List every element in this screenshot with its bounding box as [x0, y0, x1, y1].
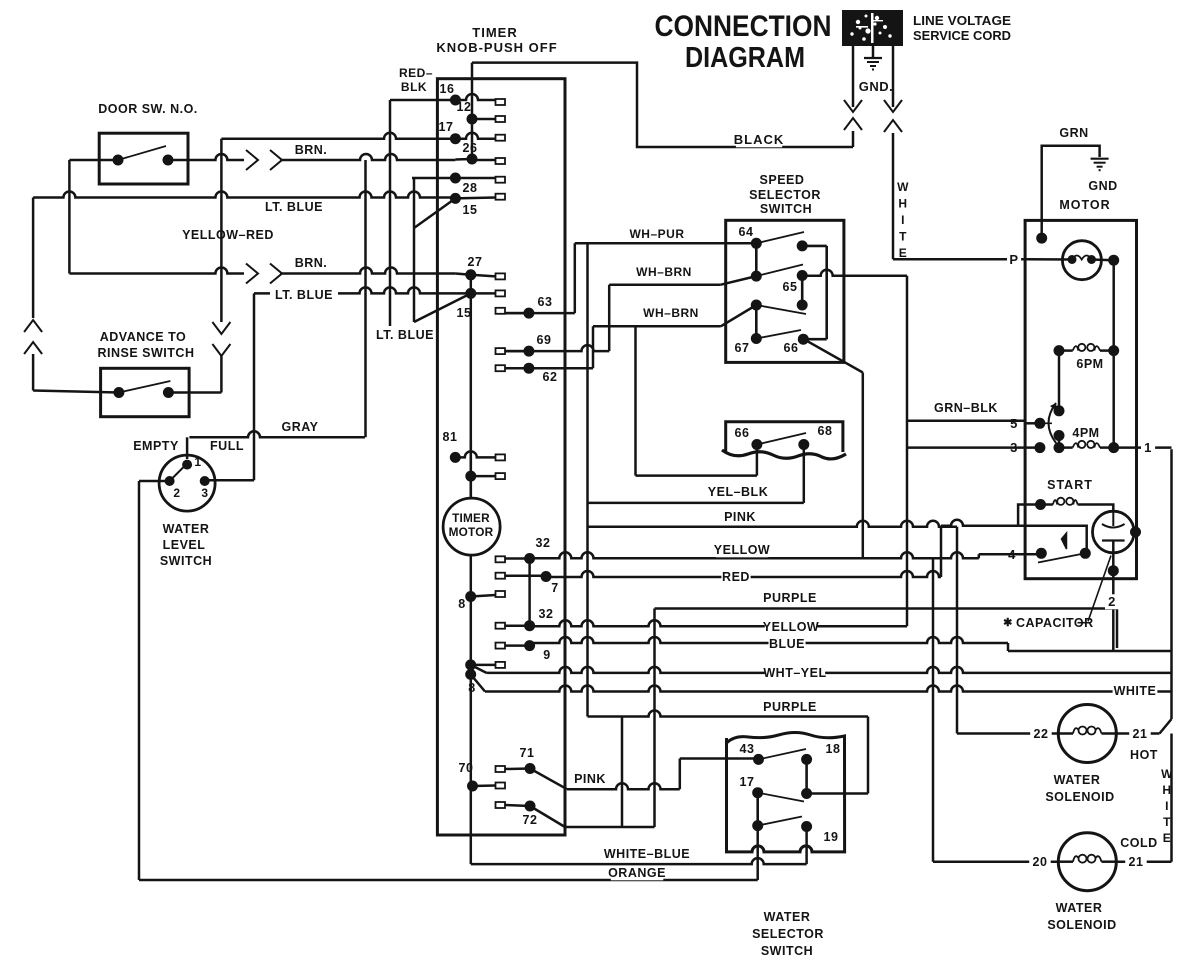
- timer terminal rail: [470, 275, 473, 499]
- terminal dot 12: [467, 114, 478, 125]
- svg-text:WATER: WATER: [1056, 901, 1103, 915]
- motor main winding circle: [1062, 241, 1101, 280]
- motor edge contact dot: [1130, 527, 1141, 538]
- label WHT-YEL: [765, 666, 825, 681]
- link 17 down: [756, 793, 759, 826]
- water level contact 3: [200, 476, 210, 486]
- main winding dot left: [1068, 255, 1077, 264]
- wire PURPLE lower: [588, 711, 869, 717]
- svg-text:H: H: [898, 197, 907, 211]
- rinse switch contact right: [163, 387, 174, 398]
- wire ORANGE: [139, 879, 758, 882]
- wire RED: [546, 571, 941, 577]
- svg-text:BRN.: BRN.: [295, 143, 328, 157]
- label YELLOW 2: [765, 620, 818, 635]
- wire door switch to left loop: [69, 159, 118, 162]
- water level blade: [170, 463, 188, 481]
- blade 66b-68: [757, 433, 806, 445]
- lug 16: [496, 99, 506, 105]
- motor grn contact dot: [1036, 233, 1047, 244]
- label P: [1007, 252, 1021, 267]
- label BRN upper: [293, 143, 330, 158]
- 4PM link vertical: [1058, 436, 1061, 448]
- svg-text:E: E: [1163, 831, 1172, 845]
- lug 15b: [496, 290, 506, 296]
- svg-text:GND: GND: [1088, 179, 1117, 193]
- wire white lead from service cord: [892, 46, 895, 107]
- wire yellow to motor 4: [978, 554, 981, 558]
- svg-text:68: 68: [818, 424, 833, 438]
- svg-text:1: 1: [1144, 440, 1152, 455]
- start winding contact: [1035, 499, 1046, 510]
- door switch box: [99, 133, 188, 184]
- svg-text:9: 9: [543, 648, 550, 662]
- svg-text:FULL: FULL: [210, 439, 244, 453]
- svg-text:65: 65: [783, 280, 798, 294]
- connector chevrons BRN lower: [246, 264, 282, 284]
- label ORANGE: [611, 866, 664, 881]
- svg-text:YEL–BLK: YEL–BLK: [708, 485, 768, 499]
- rinse selector 66-68 box: [726, 422, 843, 452]
- arrowhead black lead: [844, 100, 862, 112]
- label RED: [721, 570, 750, 585]
- blade 19: [758, 817, 802, 826]
- blade common: [756, 305, 806, 314]
- vertical yellow to cold 20: [932, 558, 935, 861]
- wire white to motor P: [893, 258, 1027, 261]
- wire 5 contact: [1026, 422, 1040, 425]
- svg-text:CONNECTION: CONNECTION: [655, 10, 832, 43]
- vertical wh-pur branch to yel-blk and pink: [586, 243, 589, 716]
- water level switch circle: [159, 455, 215, 511]
- svg-text:PINK: PINK: [724, 510, 756, 524]
- relay plate straight: [1102, 539, 1125, 541]
- water selector box: [727, 733, 845, 852]
- contact 68: [798, 439, 809, 450]
- connector chevrons BRN upper: [246, 150, 282, 170]
- terminal dot 72: [525, 801, 536, 812]
- wire 20: [933, 860, 1058, 863]
- motor right contact dot: [1108, 255, 1119, 266]
- svg-text:DOOR SW. N.O.: DOOR SW. N.O.: [98, 102, 198, 116]
- svg-text:SWITCH: SWITCH: [760, 202, 812, 216]
- 4PM winding: [1059, 441, 1114, 448]
- svg-text:ADVANCE TO: ADVANCE TO: [100, 330, 187, 344]
- svg-text:LT. BLUE: LT. BLUE: [275, 288, 333, 302]
- svg-text:LT. BLUE: LT. BLUE: [265, 200, 323, 214]
- wire 71 to pink: [530, 769, 567, 790]
- svg-text:GRN: GRN: [1059, 126, 1088, 140]
- motor right vertical: [1112, 260, 1115, 447]
- wire 32a-32b link: [528, 559, 531, 626]
- rinse switch contact left: [113, 387, 124, 398]
- svg-text:27: 27: [468, 255, 483, 269]
- svg-text:MOTOR: MOTOR: [1059, 198, 1110, 212]
- svg-text:21: 21: [1133, 727, 1148, 741]
- wire YELLOW 2: [530, 620, 907, 626]
- svg-text:WATER: WATER: [764, 910, 811, 924]
- start switch flag: [1062, 533, 1067, 549]
- start switch blade: [1038, 553, 1085, 562]
- wire 17 yellow-red horizontal: [221, 133, 455, 139]
- advance to rinse switch box: [101, 368, 190, 416]
- svg-text:63: 63: [538, 295, 553, 309]
- lug 32b: [496, 623, 506, 629]
- vertical RED-BLK: [389, 100, 392, 326]
- svg-text:HOT: HOT: [1130, 748, 1158, 762]
- contact 17: [752, 787, 763, 798]
- svg-text:71: 71: [520, 746, 535, 760]
- svg-text:1: 1: [194, 455, 201, 469]
- label PINK: [722, 510, 759, 525]
- label PURPLE upper: [764, 591, 817, 606]
- terminal dot 71: [525, 763, 536, 774]
- 6PM left vertical: [1058, 351, 1061, 411]
- label TIMER MOTOR: [449, 511, 494, 539]
- svg-text:15: 15: [463, 203, 478, 217]
- main winding loops: [1072, 256, 1092, 260]
- svg-text:TIMER: TIMER: [472, 25, 517, 40]
- label WH-BRN lower: [646, 306, 697, 320]
- wire 68 down: [803, 445, 806, 503]
- svg-text:SWITCH: SWITCH: [160, 554, 212, 568]
- lug 12: [496, 116, 506, 122]
- svg-text:COLD: COLD: [1120, 836, 1157, 850]
- cold water solenoid circle: [1058, 833, 1116, 891]
- terminal dot 32b: [524, 620, 535, 631]
- svg-text:4PM: 4PM: [1072, 426, 1099, 440]
- svg-text:PINK: PINK: [574, 772, 606, 786]
- label WH-BRN upper: [639, 265, 690, 279]
- svg-text:15: 15: [457, 306, 472, 320]
- vertical 66 output to yellow: [862, 373, 865, 559]
- wire full drop to contact 1: [186, 437, 189, 459]
- svg-text:RED: RED: [722, 570, 750, 584]
- lug 9: [496, 643, 506, 649]
- wire capacitor 2 vertical: [1112, 553, 1115, 651]
- door switch contact left: [113, 155, 124, 166]
- wire WHT-YEL: [471, 665, 487, 673]
- svg-text:RED–: RED–: [399, 66, 433, 80]
- hot solenoid winding: [1058, 727, 1116, 735]
- svg-text:2: 2: [1108, 594, 1116, 609]
- start bracket: [1018, 505, 1040, 526]
- svg-text:2: 2: [173, 486, 180, 500]
- wire 21 cold: [1116, 860, 1171, 863]
- wire black lead from service cord: [852, 46, 855, 107]
- wire 66 to link: [803, 338, 826, 341]
- wire 64 right to link: [802, 245, 827, 248]
- terminal dot 70: [467, 781, 478, 792]
- timer box: [437, 79, 565, 835]
- svg-text:TIMER: TIMER: [452, 511, 490, 525]
- lug 72: [496, 802, 506, 808]
- lug 27: [496, 273, 506, 279]
- wire 63 to wh-pur riser: [505, 312, 575, 315]
- lug 15a: [496, 194, 506, 200]
- label PINK lower: [572, 772, 609, 787]
- arrowhead white lead: [884, 100, 902, 112]
- wire 69 riser: [505, 345, 609, 351]
- start winding: [1041, 498, 1091, 505]
- label YELLOW: [716, 543, 769, 558]
- hot water solenoid circle: [1058, 705, 1116, 763]
- wire empty to left border: [139, 480, 170, 483]
- lug below 81: [496, 473, 506, 479]
- vertical motor1 wire right border: [1170, 449, 1173, 719]
- purple lower drop to 18: [867, 717, 870, 794]
- label 21 cold: [1125, 855, 1147, 870]
- svg-text:E: E: [899, 246, 908, 260]
- svg-text:WH–BRN: WH–BRN: [636, 265, 692, 279]
- lug 8a: [496, 591, 506, 597]
- label LT. BLUE upper: [260, 200, 328, 215]
- link 67 column: [755, 305, 758, 339]
- svg-text:YELLOW–RED: YELLOW–RED: [182, 228, 274, 242]
- svg-text:32: 32: [539, 607, 554, 621]
- contact 3 dot: [1034, 442, 1045, 453]
- lug 17: [496, 135, 506, 141]
- contact 19: [801, 821, 812, 832]
- svg-text:SWITCH: SWITCH: [761, 944, 813, 958]
- svg-text:32: 32: [536, 536, 551, 550]
- wire LT. BLUE lower: [254, 287, 471, 293]
- wire BLACK from timer to cord: [472, 63, 853, 147]
- svg-text:12: 12: [457, 100, 472, 114]
- start switch contact right: [1080, 548, 1091, 559]
- wire 72 exit: [530, 806, 565, 827]
- svg-text:WHT–YEL: WHT–YEL: [763, 666, 826, 680]
- terminal dot 9: [524, 640, 535, 651]
- svg-text:81: 81: [443, 430, 458, 444]
- svg-text:6PM: 6PM: [1076, 357, 1103, 371]
- wire BLUE: [530, 637, 1008, 643]
- svg-text:WATER: WATER: [1054, 773, 1101, 787]
- wire PINK lower: [567, 783, 680, 789]
- terminal dot 28: [450, 173, 461, 184]
- wire 1: [1114, 446, 1172, 449]
- relay plate curved: [1102, 524, 1125, 528]
- wire 19 down to white-blue: [805, 827, 808, 865]
- wire ground lead from service cord: [872, 46, 875, 57]
- capacitor contact dot: [1108, 565, 1119, 576]
- wire 17 column down to orange: [756, 826, 759, 880]
- svg-text:SOLENOID: SOLENOID: [1045, 790, 1114, 804]
- svg-text:18: 18: [826, 742, 841, 756]
- vertical purple2 branch: [621, 717, 624, 828]
- wire 15b diagonal: [414, 293, 471, 322]
- svg-text:LEVEL: LEVEL: [163, 538, 206, 552]
- svg-text:BRN.: BRN.: [295, 256, 328, 270]
- svg-text:70: 70: [459, 761, 474, 775]
- start switch contact left: [1036, 548, 1047, 559]
- label WHITE vertical right: [1160, 767, 1173, 845]
- lug 62: [496, 365, 506, 371]
- lug 26: [496, 158, 506, 164]
- label SPEED SELECTOR SWITCH: [749, 173, 821, 216]
- terminal dot 69: [523, 346, 534, 357]
- svg-text:62: 62: [543, 370, 558, 384]
- wire winding to right dot: [1092, 258, 1114, 261]
- terminal dot 8b upper: [465, 659, 476, 670]
- contact 66b: [751, 439, 762, 450]
- start relay circle: [1093, 511, 1135, 553]
- contact 64: [751, 238, 762, 249]
- ground symbol service cord: [864, 58, 882, 70]
- svg-text:BLUE: BLUE: [769, 637, 805, 651]
- lug 8b: [496, 662, 506, 668]
- start bracket lower: [1018, 526, 1087, 554]
- svg-text:20: 20: [1033, 855, 1048, 869]
- label WHITE right: [1113, 684, 1158, 699]
- door switch contact right: [163, 155, 174, 166]
- wire PINK: [588, 521, 958, 527]
- svg-text:MOTOR: MOTOR: [449, 525, 494, 539]
- wire PURPLE upper: [655, 607, 1118, 610]
- wire WHITE long: [471, 674, 485, 691]
- 6PM winding dots: [1054, 345, 1065, 356]
- wire 5 link: [1040, 422, 1052, 424]
- svg-text:T: T: [899, 230, 907, 244]
- centrifugal contact upper: [1054, 405, 1065, 416]
- rail above timer motor: [470, 440, 473, 499]
- label 2: [1105, 594, 1119, 609]
- svg-text:5: 5: [1010, 416, 1018, 431]
- svg-text:69: 69: [537, 333, 552, 347]
- vertical 65 output to grn-blk and yellow2: [906, 276, 909, 627]
- svg-text:7: 7: [551, 581, 558, 595]
- svg-text:SERVICE CORD: SERVICE CORD: [913, 29, 1011, 43]
- svg-text:WH–PUR: WH–PUR: [629, 227, 684, 241]
- vertical purple1 to 72 wire: [653, 609, 656, 828]
- label WATER SOLENOID cold: [1047, 901, 1116, 932]
- lug 63: [496, 308, 506, 314]
- svg-text:22: 22: [1034, 727, 1049, 741]
- lug 70: [496, 783, 506, 789]
- svg-text:P: P: [1009, 252, 1018, 267]
- svg-text:I: I: [1165, 799, 1169, 813]
- rinse switch blade: [119, 381, 170, 393]
- label LT. BLUE lower: [270, 288, 338, 303]
- timer motor circle: [443, 498, 500, 555]
- contact 67: [751, 333, 762, 344]
- svg-text:SELECTOR: SELECTOR: [749, 188, 821, 202]
- svg-text:8: 8: [468, 681, 475, 695]
- lug 28: [496, 177, 506, 183]
- svg-text:RINSE SWITCH: RINSE SWITCH: [98, 346, 195, 360]
- cold solenoid winding: [1058, 855, 1116, 863]
- svg-text:WH–BRN: WH–BRN: [643, 306, 699, 320]
- wire terminal 12 from top: [471, 63, 474, 119]
- label 20: [1029, 855, 1051, 870]
- svg-text:KNOB-PUSH OFF: KNOB-PUSH OFF: [436, 40, 557, 55]
- svg-text:26: 26: [463, 141, 478, 155]
- lug 69: [496, 348, 506, 354]
- label BLUE: [769, 637, 806, 652]
- svg-text:17: 17: [740, 775, 755, 789]
- wire 3: [907, 446, 1040, 449]
- wire 66 diagonal output: [807, 341, 863, 373]
- wire white diagonal to hot 21: [1160, 719, 1172, 734]
- vertical empty left border: [138, 481, 141, 880]
- centrifugal switch arc: [1049, 403, 1057, 443]
- link 18 down: [805, 759, 808, 793]
- svg-text:PURPLE: PURPLE: [763, 700, 817, 714]
- label WHITE-BLUE: [605, 847, 689, 862]
- contact 65: [797, 270, 808, 281]
- blade 65: [756, 265, 803, 277]
- wire BRN upper: [168, 154, 244, 160]
- wire 21 hot: [1116, 732, 1159, 735]
- svg-text:66: 66: [784, 341, 799, 355]
- label RED-BLK: [399, 66, 433, 94]
- svg-text:BLACK: BLACK: [734, 132, 785, 147]
- svg-text:WATER: WATER: [163, 522, 210, 536]
- wire BRN lower: [69, 268, 244, 274]
- svg-text:DIAGRAM: DIAGRAM: [685, 42, 805, 74]
- label 21 hot: [1129, 727, 1151, 742]
- wire terminal 28: [412, 177, 496, 180]
- terminal dot 8a: [465, 591, 476, 602]
- label WATER LEVEL SWITCH: [160, 522, 212, 568]
- svg-text:I: I: [901, 213, 905, 227]
- label 1: [1141, 440, 1155, 455]
- wire 72 to purple1 riser: [565, 826, 655, 829]
- label CAPACITOR: [1003, 616, 1094, 630]
- wire 66b down to yel-blk upper: [756, 445, 759, 476]
- blue jog down: [1007, 643, 1010, 651]
- svg-text:YELLOW: YELLOW: [714, 543, 770, 557]
- wire contact 3 to lt-blue riser: [205, 479, 254, 482]
- contact 43: [753, 754, 764, 765]
- vertical lt-blue stub: [413, 178, 416, 322]
- vertical yellow-red lower: [220, 356, 223, 393]
- vertical white to cold: [1170, 734, 1173, 862]
- lug 71: [496, 766, 506, 772]
- label LINE VOLTAGE SERVICE CORD: [913, 14, 1011, 43]
- wire YEL-BLK: [588, 502, 804, 505]
- wire full to gray: [189, 431, 365, 437]
- contact 66-67 common: [751, 300, 762, 311]
- svg-text:28: 28: [463, 181, 478, 195]
- label 22: [1030, 727, 1052, 742]
- ground symbol motor: [1091, 159, 1109, 171]
- wire 81 to lug: [455, 451, 495, 457]
- main winding dot right: [1087, 255, 1096, 264]
- terminal dot 63: [523, 308, 534, 319]
- rail below timer motor: [470, 555, 473, 835]
- line voltage service cord box: [842, 10, 903, 46]
- blade 67: [756, 330, 801, 339]
- svg-text:LINE VOLTAGE: LINE VOLTAGE: [913, 14, 1011, 28]
- svg-text:4: 4: [1008, 547, 1016, 562]
- 4PM winding dots: [1054, 442, 1065, 453]
- contact 18 lower: [801, 788, 812, 799]
- terminal dot 8b lower: [465, 669, 476, 680]
- pink lower riser to 43: [679, 759, 682, 790]
- svg-text:43: 43: [740, 742, 755, 756]
- label BLACK: [736, 132, 782, 147]
- vertical yellow-red: [220, 139, 223, 322]
- svg-text:64: 64: [739, 225, 754, 239]
- door switch blade: [118, 146, 166, 160]
- svg-text:72: 72: [523, 813, 538, 827]
- svg-text:8: 8: [458, 597, 465, 611]
- blade 17: [758, 793, 804, 802]
- wire 12-26 link: [471, 119, 474, 159]
- svg-text:3: 3: [201, 486, 208, 500]
- svg-text:WHITE: WHITE: [1114, 684, 1157, 698]
